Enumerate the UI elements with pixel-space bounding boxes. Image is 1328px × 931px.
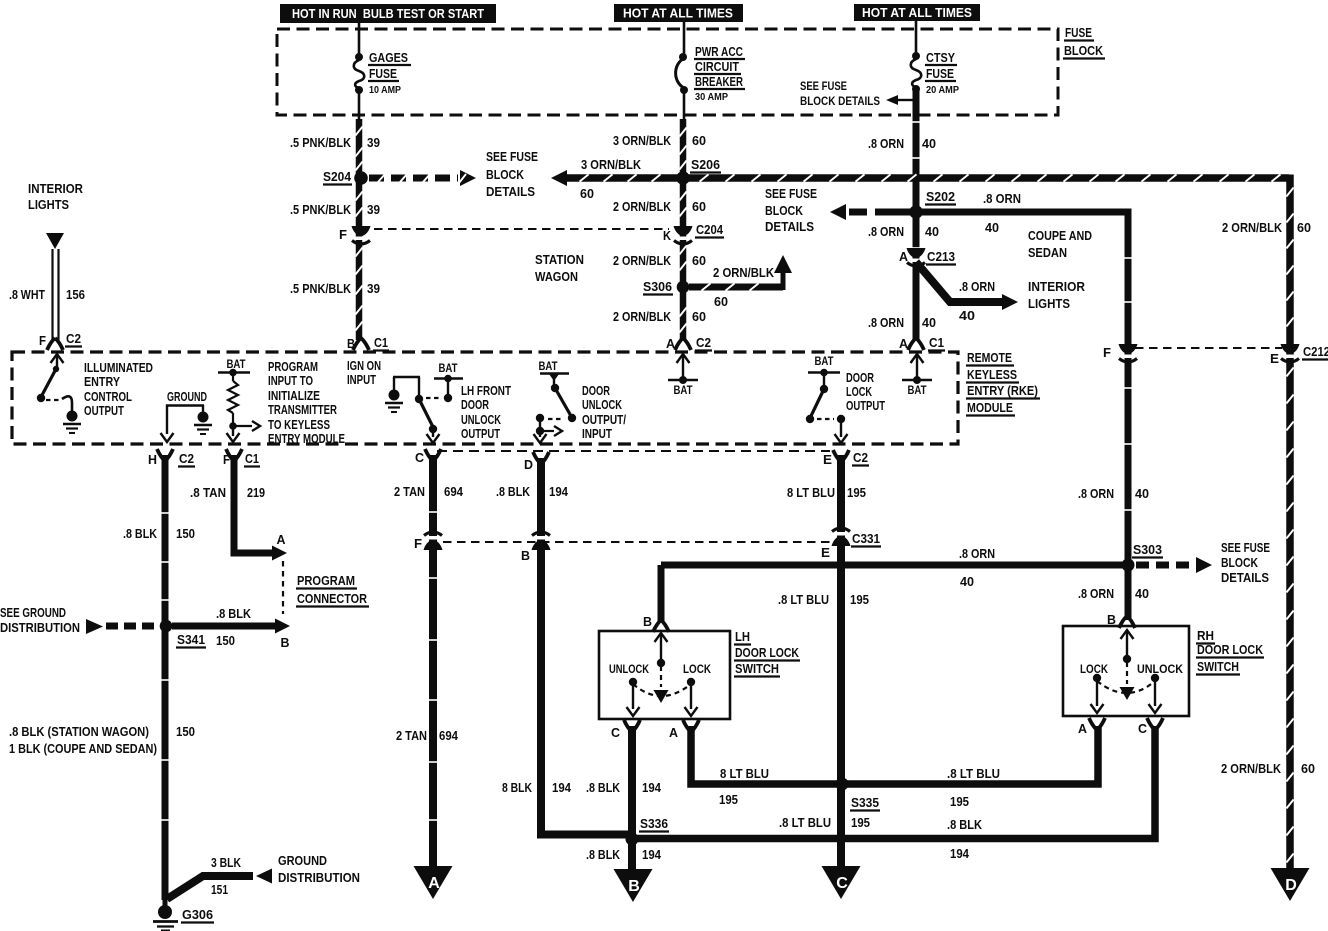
RH switch internals	[1121, 630, 1134, 639]
svg-text:.8 BLK: .8 BLK	[123, 526, 158, 541]
svg-text:40: 40	[925, 224, 939, 239]
svg-text:BLOCK DETAILS: BLOCK DETAILS	[800, 96, 880, 108]
svg-text:.8 LT BLU: .8 LT BLU	[779, 815, 831, 830]
svg-text:.8 ORN: .8 ORN	[868, 224, 904, 239]
svg-text:DISTRIBUTION: DISTRIBUTION	[0, 621, 80, 635]
svg-text:DOOR LOCK: DOOR LOCK	[1197, 642, 1263, 657]
LH switch internals	[655, 633, 668, 642]
svg-text:KEYLESS: KEYLESS	[967, 367, 1017, 382]
svg-text:A: A	[899, 249, 909, 264]
svg-text:.8 BLK: .8 BLK	[496, 484, 531, 499]
wire .8 ORN from S202 down right side to RH door lock switch	[1125, 212, 1132, 620]
svg-text:S204: S204	[323, 169, 352, 184]
svg-text:H: H	[148, 452, 157, 467]
svg-text:DOOR: DOOR	[461, 398, 489, 412]
svg-text:LIGHTS: LIGHTS	[1028, 297, 1070, 311]
program connector dashed link A-B	[282, 561, 284, 614]
svg-text:2 TAN: 2 TAN	[396, 728, 427, 743]
svg-text:10 AMP: 10 AMP	[369, 85, 401, 96]
svg-text:40: 40	[1135, 486, 1149, 501]
svg-text:ENTRY: ENTRY	[84, 375, 121, 389]
svg-text:UNLOCK: UNLOCK	[582, 398, 622, 412]
svg-text:RH: RH	[1197, 628, 1214, 643]
svg-text:GAGES: GAGES	[369, 50, 408, 65]
wire 8 LT BLU 195 from E down to arrow C	[837, 455, 845, 869]
svg-text:C: C	[836, 875, 848, 892]
svg-text:LOCK: LOCK	[846, 385, 872, 399]
svg-text:194: 194	[642, 780, 662, 795]
REMOTE KEYLESS ENTRY (RKE) MODULE dashed box	[12, 352, 958, 444]
svg-text:S202: S202	[926, 189, 955, 204]
svg-text:DOOR LOCK: DOOR LOCK	[735, 645, 799, 660]
svg-text:UNLOCK: UNLOCK	[461, 413, 501, 427]
svg-text:ENTRY MODULE: ENTRY MODULE	[268, 432, 345, 446]
svg-text:.8 BLK: .8 BLK	[586, 847, 621, 862]
svg-text:C1: C1	[245, 451, 259, 466]
LH front door unlock output switch	[389, 390, 400, 401]
svg-text:.8 ORN: .8 ORN	[983, 191, 1021, 206]
svg-text:.5 PNK/BLK: .5 PNK/BLK	[290, 281, 352, 296]
svg-text:DOOR: DOOR	[582, 384, 610, 398]
svg-text:8 LT BLU: 8 LT BLU	[787, 485, 835, 500]
svg-text:BAT: BAT	[674, 385, 693, 397]
svg-text:MODULE: MODULE	[967, 400, 1013, 415]
svg-text:INTERIOR: INTERIOR	[28, 182, 83, 196]
svg-text:2 ORN/BLK: 2 ORN/BLK	[713, 265, 775, 280]
svg-text:UNLOCK: UNLOCK	[609, 664, 650, 676]
svg-text:156: 156	[66, 287, 85, 302]
svg-text:INPUT TO: INPUT TO	[268, 374, 313, 388]
off-page arrow A	[414, 866, 453, 899]
svg-text:BREAKER: BREAKER	[695, 74, 743, 89]
svg-text:ENTRY (RKE): ENTRY (RKE)	[967, 383, 1038, 398]
svg-text:HOT AT ALL TIMES: HOT AT ALL TIMES	[623, 7, 733, 21]
dashed connector line C331 (F - B - E)	[443, 541, 830, 543]
svg-text:OUTPUT: OUTPUT	[84, 404, 124, 418]
off-page arrow D	[1271, 868, 1310, 901]
svg-text:60: 60	[692, 253, 706, 268]
svg-text:20 AMP: 20 AMP	[926, 85, 959, 96]
dashed connector line under module bottom (C2)	[437, 450, 830, 452]
svg-text:LIGHTS: LIGHTS	[28, 198, 69, 212]
svg-text:GROUND: GROUND	[167, 390, 207, 404]
svg-text:C1: C1	[374, 335, 388, 350]
svg-text:HOT IN RUN BULB TEST OR START: HOT IN RUN BULB TEST OR START	[292, 7, 484, 21]
svg-text:BLOCK: BLOCK	[765, 204, 803, 218]
wire 3 ORN/BLK from PWR ACC breaker down to module A/C2	[680, 119, 687, 340]
wire .8 BLK 150 from H down to G306	[162, 455, 169, 900]
svg-text:INPUT: INPUT	[582, 427, 612, 441]
svg-text:D: D	[524, 457, 533, 472]
svg-text:K: K	[663, 228, 672, 243]
svg-text:195: 195	[950, 794, 969, 809]
svg-text:694: 694	[444, 484, 464, 499]
svg-text:LH: LH	[735, 629, 750, 644]
svg-text:WAGON: WAGON	[535, 270, 578, 284]
svg-text:SEE GROUND: SEE GROUND	[0, 606, 66, 620]
svg-text:.8 LT BLU: .8 LT BLU	[947, 766, 1000, 781]
svg-text:150: 150	[176, 526, 195, 541]
svg-text:SEDAN: SEDAN	[1028, 246, 1067, 260]
svg-text:DETAILS: DETAILS	[765, 220, 814, 234]
svg-text:C331: C331	[852, 531, 880, 546]
svg-text:.8 ORN: .8 ORN	[959, 279, 995, 294]
svg-text:B: B	[628, 878, 640, 895]
illuminated entry control output switch	[51, 354, 64, 363]
svg-text:COUPE AND: COUPE AND	[1028, 229, 1092, 243]
svg-text:C: C	[1138, 721, 1148, 736]
svg-text:SEE FUSE: SEE FUSE	[486, 150, 538, 164]
svg-text:B: B	[521, 548, 530, 563]
svg-text:39: 39	[367, 135, 380, 150]
BAT stub (under A/C1)	[911, 354, 924, 363]
svg-text:SWITCH: SWITCH	[1197, 659, 1239, 674]
svg-text:OUTPUT/: OUTPUT/	[582, 413, 626, 427]
svg-text:S303: S303	[1133, 542, 1162, 557]
fuse GAGES (10 AMP)	[355, 53, 363, 61]
svg-text:39: 39	[367, 202, 380, 217]
svg-text:DETAILS: DETAILS	[486, 185, 535, 199]
svg-text:219: 219	[247, 485, 265, 500]
svg-text:2 ORN/BLK: 2 ORN/BLK	[613, 253, 672, 268]
svg-text:E: E	[823, 452, 832, 467]
svg-text:BLOCK: BLOCK	[1064, 43, 1104, 58]
svg-text:BAT: BAT	[815, 356, 834, 368]
svg-text:40: 40	[985, 220, 999, 235]
LH door lock switch box	[599, 631, 730, 719]
svg-text:40: 40	[959, 308, 975, 323]
wire .8 ORN from S303 left, down to LH door lock switch B	[661, 562, 1128, 569]
svg-text:LOCK: LOCK	[683, 664, 712, 676]
svg-text:SEE FUSE: SEE FUSE	[800, 81, 847, 93]
wire .8 TAN 219 from F/C1 to program connector A	[234, 455, 272, 553]
svg-text:D: D	[1285, 877, 1297, 894]
svg-text:194: 194	[552, 780, 572, 795]
fuse CTSY (20 AMP)	[912, 52, 920, 60]
splice S341 and wire .8 BLK 150 to program connector B	[160, 620, 173, 633]
svg-text:B: B	[643, 614, 652, 629]
svg-text:195: 195	[847, 485, 866, 500]
svg-text:DOOR: DOOR	[846, 371, 874, 385]
branch arrow to INTERIOR LIGHTS (.8 ORN 40)	[916, 262, 1003, 302]
svg-text:30 AMP: 30 AMP	[695, 92, 728, 103]
svg-text:60: 60	[692, 133, 706, 148]
svg-text:PWR ACC: PWR ACC	[695, 44, 743, 59]
banner HOT IN RUN BULB TEST OR START	[280, 4, 496, 23]
svg-text:194: 194	[642, 847, 662, 862]
svg-text:HOT AT ALL TIMES: HOT AT ALL TIMES	[862, 6, 972, 20]
svg-text:S306: S306	[643, 279, 672, 294]
svg-text:60: 60	[580, 186, 594, 201]
svg-text:G306: G306	[182, 907, 213, 922]
svg-text:40: 40	[1135, 586, 1149, 601]
svg-text:F: F	[39, 333, 46, 348]
svg-text:ILLUMINATED: ILLUMINATED	[84, 361, 153, 375]
svg-text:DETAILS: DETAILS	[1221, 571, 1269, 585]
svg-text:2 ORN/BLK: 2 ORN/BLK	[1222, 220, 1283, 235]
svg-text:BAT: BAT	[908, 385, 927, 397]
svg-text:3 ORN/BLK: 3 ORN/BLK	[613, 133, 672, 148]
svg-text:TRANSMITTER: TRANSMITTER	[268, 403, 337, 417]
svg-text:BAT: BAT	[227, 359, 246, 371]
splice S335	[836, 778, 849, 791]
svg-text:C204: C204	[696, 222, 724, 237]
svg-text:DISTRIBUTION: DISTRIBUTION	[278, 871, 360, 885]
svg-text:A: A	[277, 532, 287, 547]
svg-text:OUTPUT: OUTPUT	[461, 427, 500, 441]
svg-text:194: 194	[549, 484, 569, 499]
svg-text:C2: C2	[853, 450, 868, 465]
svg-text:FUSE: FUSE	[369, 66, 397, 81]
wire from banner1 into fuse block	[358, 23, 361, 55]
svg-text:INTERIOR: INTERIOR	[1028, 280, 1085, 294]
svg-text:.5 PNK/BLK: .5 PNK/BLK	[290, 202, 352, 217]
svg-text:C: C	[611, 725, 621, 740]
svg-text:B: B	[281, 635, 290, 650]
svg-text:BLOCK: BLOCK	[1221, 556, 1258, 570]
svg-text:.8 LT BLU: .8 LT BLU	[778, 592, 829, 607]
svg-text:.8 BLK: .8 BLK	[947, 817, 983, 832]
svg-text:60: 60	[1297, 220, 1311, 235]
svg-text:8 BLK: 8 BLK	[502, 780, 532, 795]
svg-text:S335: S335	[851, 795, 879, 810]
svg-text:60: 60	[1301, 761, 1315, 776]
ground G306	[163, 898, 168, 908]
svg-text:UNLOCK: UNLOCK	[1137, 664, 1184, 676]
splice S336	[626, 833, 639, 846]
svg-text:C2: C2	[179, 451, 194, 466]
svg-text:60: 60	[692, 309, 706, 324]
circuit breaker PWR ACC (30 AMP)	[679, 53, 687, 61]
svg-text:CONTROL: CONTROL	[84, 390, 132, 404]
svg-text:SEE FUSE: SEE FUSE	[1221, 541, 1270, 555]
svg-text:.8 BLK: .8 BLK	[216, 606, 252, 621]
svg-text:2 TAN: 2 TAN	[394, 484, 425, 499]
svg-text:1 BLK (COUPE AND SEDAN): 1 BLK (COUPE AND SEDAN)	[9, 742, 157, 756]
svg-text:FUSE: FUSE	[1065, 25, 1092, 40]
svg-text:F: F	[1103, 345, 1111, 360]
off-page arrow B	[614, 869, 653, 902]
svg-text:.8 BLK (STATION WAGON): .8 BLK (STATION WAGON)	[9, 725, 149, 739]
svg-text:40: 40	[922, 315, 936, 330]
svg-text:REMOTE: REMOTE	[967, 350, 1012, 365]
svg-text:S341: S341	[177, 632, 205, 647]
svg-text:.8 TAN: .8 TAN	[190, 485, 226, 500]
wire .8 ORN from CTSY fuse down	[913, 90, 920, 340]
svg-text:.8 ORN: .8 ORN	[868, 315, 904, 330]
svg-text:C2: C2	[66, 331, 81, 346]
svg-text:F: F	[414, 536, 422, 551]
svg-text:60: 60	[714, 294, 728, 309]
svg-text:.8 BLK: .8 BLK	[586, 780, 621, 795]
svg-text:SWITCH: SWITCH	[735, 661, 779, 676]
BAT stub (under A/C2)	[677, 354, 690, 363]
dashed line F to E	[1135, 347, 1282, 349]
svg-text:INPUT: INPUT	[347, 373, 376, 387]
banner HOT AT ALL TIMES (left)	[614, 4, 743, 22]
RH door lock switch box	[1063, 626, 1189, 716]
svg-text:S206: S206	[691, 157, 720, 172]
svg-text:BAT: BAT	[439, 363, 458, 375]
svg-text:150: 150	[216, 633, 235, 648]
svg-text:39: 39	[367, 281, 380, 296]
svg-text:OUTPUT: OUTPUT	[846, 399, 885, 413]
svg-text:.5 PNK/BLK: .5 PNK/BLK	[290, 135, 352, 150]
svg-text:LH FRONT: LH FRONT	[461, 384, 511, 398]
svg-text:INITIALIZE: INITIALIZE	[268, 389, 320, 403]
svg-text:B: B	[1107, 612, 1116, 627]
svg-text:GROUND: GROUND	[278, 854, 327, 868]
svg-text:195: 195	[850, 592, 869, 607]
svg-text:694: 694	[439, 728, 459, 743]
hatched arrow from S204 to SEE FUSE BLOCK DETAILS	[369, 175, 458, 182]
svg-text:A: A	[669, 725, 679, 740]
svg-text:60: 60	[692, 199, 706, 214]
svg-text:SEE FUSE: SEE FUSE	[765, 187, 817, 201]
fuse block dashed box	[277, 29, 1058, 115]
double-line wire .8 WHT 156	[51, 249, 53, 340]
banner HOT AT ALL TIMES (right)	[854, 4, 980, 21]
svg-text:150: 150	[176, 724, 195, 739]
svg-text:A: A	[1078, 721, 1088, 736]
svg-text:E: E	[1270, 351, 1279, 366]
svg-text:A: A	[428, 875, 440, 892]
svg-text:CTSY: CTSY	[926, 50, 955, 65]
svg-text:.8 ORN: .8 ORN	[1078, 586, 1114, 601]
svg-text:C2: C2	[696, 335, 711, 350]
svg-text:FUSE: FUSE	[926, 66, 954, 81]
connector C331 (E)	[835, 532, 847, 536]
svg-text:PROGRAM: PROGRAM	[268, 360, 318, 374]
svg-text:195: 195	[719, 792, 738, 807]
wire .8 ORN from S303 into RH switch B	[1125, 565, 1132, 620]
svg-text:194: 194	[950, 846, 970, 861]
svg-text:TO KEYLESS: TO KEYLESS	[268, 418, 330, 432]
svg-text:.8 ORN: .8 ORN	[1078, 486, 1114, 501]
arrow down into double wire	[46, 233, 64, 249]
svg-text:STATION: STATION	[535, 253, 584, 267]
svg-text:LOCK: LOCK	[1080, 664, 1109, 676]
svg-text:2 ORN/BLK: 2 ORN/BLK	[613, 309, 672, 324]
svg-text:195: 195	[851, 815, 870, 830]
svg-text:C213: C213	[927, 249, 955, 264]
svg-text:IGN ON: IGN ON	[347, 359, 381, 373]
wire .8 BLK 194 from LH switch C down to arrow B	[628, 726, 636, 870]
wire 8 LT BLU 195 from LH switch A right to RH switch A via S335	[691, 726, 1098, 784]
svg-text:40: 40	[922, 136, 936, 151]
long hatched wire 3 ORN/BLK from arrow (SEE FUSE BLOCK DETAILS) across page to right edge	[551, 170, 567, 186]
svg-text:PROGRAM: PROGRAM	[297, 573, 355, 588]
svg-text:C: C	[415, 450, 425, 465]
wire 2 TAN 694 from C down to arrow A	[429, 455, 437, 869]
svg-text:3 ORN/BLK: 3 ORN/BLK	[581, 157, 642, 172]
wire .8 BLK 194 from D down and right to S336	[541, 458, 635, 835]
svg-text:C212: C212	[1303, 344, 1328, 359]
svg-text:E: E	[821, 545, 830, 560]
svg-text:8 LT BLU: 8 LT BLU	[720, 766, 769, 781]
branch to GROUND DISTRIBUTION (3 BLK 151)	[167, 876, 253, 899]
wire .8 BLK 194 from D corner right to RH switch C via S336	[632, 726, 1155, 839]
svg-text:.8 ORN: .8 ORN	[959, 546, 995, 561]
svg-text:3 BLK: 3 BLK	[211, 855, 241, 870]
svg-text:.8 ORN: .8 ORN	[868, 136, 904, 151]
wire from banner3 into fuse block	[915, 21, 918, 54]
svg-text:BLOCK: BLOCK	[486, 168, 524, 182]
svg-text:2 ORN/BLK: 2 ORN/BLK	[613, 199, 672, 214]
svg-text:F: F	[339, 227, 347, 242]
connector B (in-line, wire D)	[535, 536, 547, 540]
svg-text:151: 151	[211, 882, 228, 897]
svg-text:C1: C1	[929, 335, 944, 350]
wire .5 PNK/BLK from GAGES fuse down to module B/C1	[356, 119, 363, 340]
svg-text:CIRCUIT: CIRCUIT	[695, 59, 739, 74]
svg-text:40: 40	[960, 574, 974, 589]
svg-text:.8 WHT: .8 WHT	[9, 287, 45, 302]
wire from banner2 into fuse block	[683, 22, 686, 55]
svg-text:2 ORN/BLK: 2 ORN/BLK	[1221, 761, 1282, 776]
wire 2 ORN/BLK right edge: down from long wire to arrow D	[1286, 175, 1294, 870]
svg-text:CONNECTOR: CONNECTOR	[297, 591, 368, 606]
off-page arrow C	[822, 866, 861, 899]
svg-text:BAT: BAT	[539, 361, 558, 373]
dashed line F to K	[374, 228, 669, 230]
svg-text:S336: S336	[640, 816, 668, 831]
